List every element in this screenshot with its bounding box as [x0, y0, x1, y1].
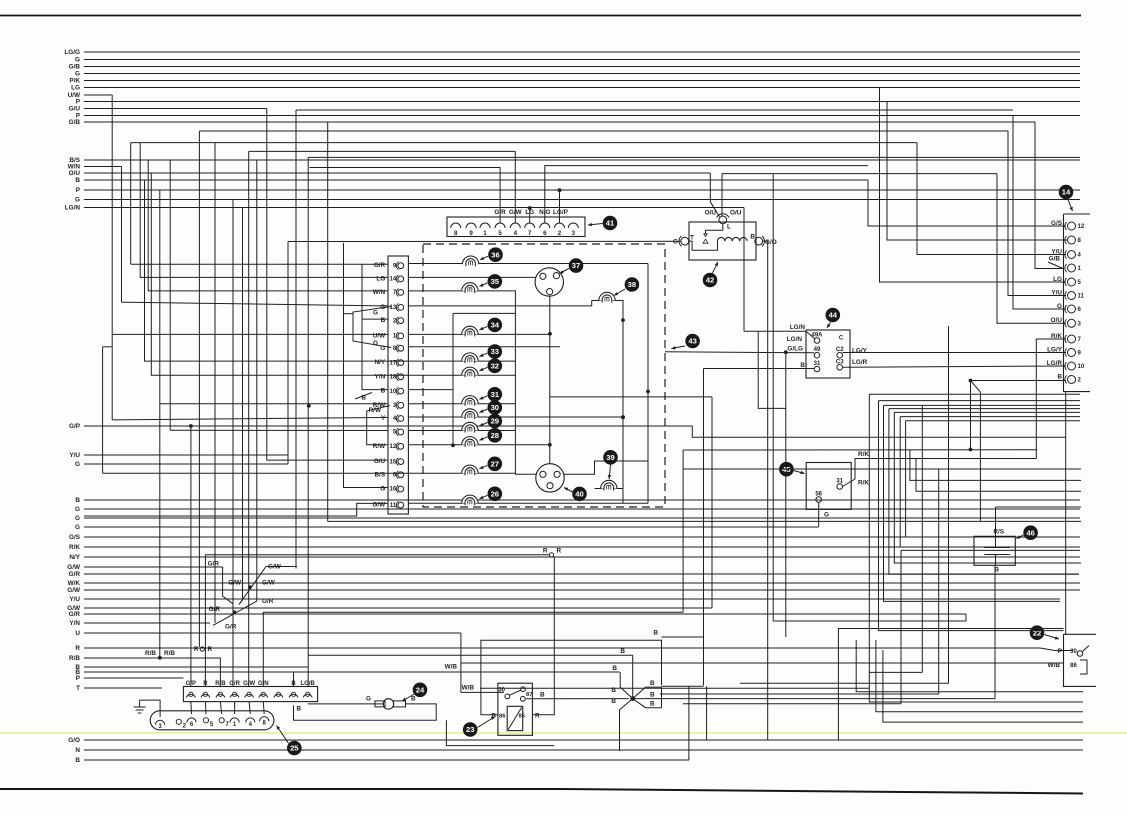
svg-text:LG/N: LG/N — [790, 324, 806, 331]
svg-text:P: P — [76, 675, 81, 682]
svg-text:LG/P: LG/P — [553, 209, 569, 216]
svg-text:32: 32 — [491, 361, 499, 370]
wire y142 cross — [131, 142, 917, 144]
svg-text:B: B — [650, 701, 655, 708]
wire st3 row — [884, 404, 1081, 406]
node gauge vert dot — [621, 318, 625, 322]
warning lamp 28 — [462, 428, 502, 447]
wire G16 bracket top — [344, 313, 354, 315]
wire row4 bulb30 — [408, 416, 623, 418]
wire B 760 — [75, 757, 689, 764]
wire N/Y 557 — [69, 554, 1080, 561]
svg-text:R/W: R/W — [369, 407, 382, 414]
svg-text:Y/N: Y/N — [375, 373, 386, 380]
svg-text:T: T — [76, 685, 80, 692]
svg-text:42: 42 — [706, 276, 714, 285]
wire star ur ext — [662, 685, 704, 687]
svg-text:R/B: R/B — [69, 655, 80, 662]
wire G/B 122 — [69, 119, 1035, 126]
svg-text:G: G — [366, 696, 371, 703]
svg-text:B: B — [800, 362, 805, 369]
switch 22 row 86 — [1048, 660, 1087, 674]
node inner right dot — [646, 390, 650, 394]
wire st5 row — [894, 411, 1080, 413]
svg-text:LG/B: LG/B — [301, 681, 316, 687]
warning lamp 33 — [462, 344, 502, 363]
flasher 44 box — [806, 330, 850, 378]
relay 42 left terminal — [679, 236, 689, 246]
wire G8/B-S bracket — [102, 347, 104, 474]
wire P 190 — [76, 187, 1080, 194]
wire fuse loop — [294, 704, 437, 720]
svg-text:33: 33 — [491, 347, 499, 356]
wire T riser — [869, 394, 1083, 702]
wire GO down — [763, 241, 768, 740]
svg-text:B: B — [612, 665, 617, 672]
wire GN net right — [683, 450, 1037, 613]
node GLG dot — [784, 350, 788, 354]
svg-text:O/U: O/U — [1051, 317, 1063, 324]
wire st2 — [879, 401, 1064, 631]
wire G/B 66 — [69, 64, 1080, 71]
svg-text:G/B: G/B — [1049, 256, 1061, 263]
gauge 37 — [535, 258, 583, 296]
wire R horiz — [205, 554, 549, 556]
svg-text:43: 43 — [688, 337, 696, 346]
wire GO riser — [838, 629, 1063, 741]
wire x948 vert — [948, 326, 950, 683]
wire y621 row — [773, 620, 966, 622]
svg-text:LG/R: LG/R — [852, 359, 868, 366]
svg-text:11: 11 — [1078, 294, 1085, 300]
wire G/B to 14 — [1035, 122, 1063, 269]
svg-text:86: 86 — [499, 714, 506, 720]
labels 42 GT — [673, 235, 694, 246]
svg-text:G/R: G/R — [229, 681, 240, 687]
wire 86 loop — [481, 640, 662, 715]
svg-text:B/S: B/S — [375, 471, 386, 478]
wire x938 vert — [938, 469, 940, 694]
wire OU right drop — [721, 174, 723, 216]
wire st6 row — [900, 416, 1080, 418]
wire LGN left vert — [758, 331, 786, 408]
svg-text:24: 24 — [416, 685, 425, 694]
svg-text:G/U: G/U — [374, 458, 386, 465]
svg-text:28: 28 — [491, 431, 499, 440]
wire st5 — [894, 412, 1081, 563]
svg-text:56: 56 — [815, 492, 822, 498]
wire pin9 G/R — [131, 263, 388, 265]
wire row3 bulb31 — [408, 403, 515, 405]
wire G/W 590 — [67, 587, 1080, 594]
wire bottom inner — [408, 502, 648, 504]
svg-text:G/W: G/W — [372, 502, 386, 509]
wire GR pin vert — [232, 200, 234, 687]
wire G bracket 13-8 — [353, 307, 391, 348]
wire G 527 — [75, 524, 819, 531]
svg-text:B: B — [381, 388, 386, 395]
svg-text:P: P — [76, 99, 81, 106]
wire RB pin up — [219, 658, 221, 687]
svg-text:P: P — [1058, 648, 1063, 655]
svg-text:40: 40 — [575, 490, 583, 499]
svg-text:LG/Y: LG/Y — [852, 348, 868, 355]
svg-text:U/W: U/W — [373, 332, 386, 339]
labels 41 wires — [494, 209, 568, 216]
node row4 dot — [621, 415, 625, 419]
wire B 500 — [75, 497, 1080, 504]
wire 87 B out — [526, 692, 629, 699]
label 43 — [672, 334, 700, 350]
svg-text:W/N: W/N — [373, 289, 386, 296]
svg-text:U: U — [75, 630, 80, 637]
ground star — [620, 655, 662, 751]
svg-text:R/B: R/B — [145, 650, 156, 657]
svg-text:O/U: O/U — [730, 210, 742, 217]
svg-text:G: G — [75, 197, 80, 204]
wire 41 pin7 stub — [528, 206, 532, 223]
wire G/O 740 — [68, 737, 1083, 744]
svg-text:G/S: G/S — [69, 534, 81, 541]
wire R bullet left — [194, 646, 213, 653]
relay 23 coil box — [507, 706, 523, 730]
wire y672 row — [869, 671, 922, 673]
wire diagB exit — [266, 566, 297, 568]
wire pin17 NY feed — [145, 180, 409, 361]
svg-text:16: 16 — [390, 487, 397, 493]
wire B/S 160 — [69, 157, 1080, 164]
wire row14 gauge37 — [408, 276, 537, 278]
wire 41 pin5 feed — [310, 168, 501, 224]
wire row5 — [170, 429, 388, 431]
wire LG/G 52 — [64, 49, 1080, 56]
wire row17 bulb33 — [408, 360, 515, 362]
switch 22 row 30 — [1058, 646, 1089, 657]
ground symbol — [134, 700, 146, 713]
svg-text:G/R: G/R — [209, 606, 221, 613]
wire y694 row — [660, 693, 939, 695]
wire G/W 567 — [67, 564, 222, 571]
svg-text:G/U: G/U — [69, 106, 81, 113]
svg-text:N/Y: N/Y — [375, 359, 386, 366]
instrument dashed box 43 — [423, 244, 665, 507]
wire B10 diag — [355, 393, 372, 402]
wire LGN feed — [743, 208, 745, 332]
label 24 — [402, 683, 427, 702]
svg-text:R/K: R/K — [858, 451, 869, 458]
node row12 dot — [451, 443, 455, 447]
svg-text:G/P: G/P — [69, 423, 81, 430]
wire x922 vert — [921, 405, 923, 672]
svg-text:LG/N: LG/N — [787, 336, 803, 343]
capacitor 46 box — [974, 536, 1015, 565]
wire GW vert — [295, 110, 297, 569]
svg-text:Y: Y — [381, 415, 386, 422]
wire G/S 537 — [69, 534, 1080, 541]
svg-text:C: C — [839, 336, 844, 342]
warning lamp 30 — [462, 400, 502, 419]
svg-text:B: B — [411, 696, 416, 703]
connector 25 terminals — [186, 681, 316, 698]
wire LGR to 14 — [843, 366, 1067, 367]
wire RW3 feed — [159, 190, 161, 658]
wire G/W 608 — [67, 605, 712, 612]
wire YU cross vert — [239, 208, 243, 605]
wire B10/5 bracket — [169, 160, 171, 430]
wire N 750 — [75, 747, 1083, 754]
svg-text:31: 31 — [836, 479, 843, 485]
svg-text:31: 31 — [491, 390, 500, 399]
svg-text:34: 34 — [491, 321, 500, 330]
connector 41 box — [447, 217, 585, 237]
wire st4 row — [889, 408, 1080, 410]
svg-text:R/B: R/B — [164, 650, 175, 657]
warning lamp 31 — [462, 387, 502, 406]
wire row12 bulb28 — [408, 444, 550, 446]
wire y110 to 14 — [1013, 116, 1066, 310]
wire W/N down — [121, 167, 123, 303]
wire U 633 — [75, 630, 461, 637]
wire y151 row — [249, 150, 516, 152]
svg-text:14: 14 — [390, 277, 397, 283]
svg-text:35: 35 — [491, 277, 500, 286]
wire ground link — [140, 700, 161, 717]
wire GN pin up — [263, 612, 683, 686]
svg-text:87: 87 — [526, 692, 532, 698]
svg-text:O/U: O/U — [705, 210, 717, 217]
wire stair d1 — [856, 640, 1083, 692]
fuse 24 — [366, 696, 416, 710]
svg-text:G/R: G/R — [208, 561, 220, 568]
svg-text:B: B — [75, 757, 80, 764]
wire G16 bracket — [344, 243, 389, 488]
wire st2 row — [879, 400, 1081, 402]
svg-text:G/O: G/O — [68, 737, 80, 744]
svg-text:G/W: G/W — [67, 587, 81, 594]
wire RK down — [900, 550, 902, 703]
wire Y/N 623 — [69, 620, 210, 627]
wire pin7 WN feed — [148, 160, 388, 291]
svg-text:O/U: O/U — [69, 170, 81, 177]
svg-text:18: 18 — [390, 375, 397, 381]
labels 44 right — [852, 348, 868, 367]
wire st7 row — [906, 420, 1080, 422]
wire row1 — [408, 333, 550, 335]
wire P 678 — [76, 675, 184, 682]
wire GP pin up — [189, 424, 193, 686]
svg-text:36: 36 — [491, 250, 499, 259]
wire P/K 80 — [69, 78, 1080, 85]
wire G 509 — [75, 506, 1080, 513]
svg-text:B: B — [75, 497, 80, 504]
wire st7 — [905, 421, 907, 537]
svg-text:30: 30 — [491, 403, 499, 412]
node GR diag dot — [232, 610, 236, 614]
svg-text:31: 31 — [814, 361, 821, 367]
wire RS up — [996, 507, 1082, 536]
wire RW bracket 3-12 — [367, 406, 390, 445]
wire B760 riser — [688, 686, 690, 760]
wire LGY to 14 — [843, 352, 1067, 354]
wire x692 y396 vert — [711, 397, 713, 608]
wire GU down — [267, 109, 388, 461]
wire inner right vert — [647, 264, 649, 504]
connector 41 pins — [451, 223, 579, 237]
wire GO up right — [965, 614, 967, 621]
label 25 — [277, 726, 302, 756]
svg-text:G/LG: G/LG — [787, 346, 803, 353]
svg-text:P: P — [76, 187, 81, 194]
label 44 — [826, 308, 841, 328]
wire inner top — [453, 312, 515, 314]
svg-text:30: 30 — [1070, 649, 1077, 655]
svg-text:G/W: G/W — [268, 564, 282, 571]
wire R/B 658 — [69, 655, 220, 662]
svg-text:39: 39 — [606, 453, 614, 462]
wire OU left drop — [710, 173, 719, 217]
warning lamp 34 — [462, 318, 502, 337]
svg-text:T: T — [690, 235, 694, 242]
relay 42 fixed contact — [703, 239, 708, 243]
wires 25 strip to plug — [191, 702, 264, 714]
svg-text:85: 85 — [519, 714, 526, 720]
svg-text:R: R — [557, 548, 562, 555]
labels 42 B GO — [750, 234, 776, 246]
wire GR cross vert — [223, 567, 233, 604]
wire LG 87 — [71, 85, 1080, 92]
wire G/B diag — [1048, 256, 1063, 269]
relay 42 top terminal — [717, 214, 729, 224]
svg-text:W/B: W/B — [462, 685, 475, 692]
wire x785 vert — [785, 352, 787, 637]
svg-text:R/W: R/W — [373, 443, 386, 450]
hazard 45 pins — [815, 479, 843, 503]
connector strip pins — [372, 262, 403, 509]
wire row10 — [408, 389, 453, 391]
wire B to 31 — [704, 368, 815, 370]
svg-text:10: 10 — [390, 389, 397, 395]
wire 85 R out — [532, 557, 554, 715]
wire G 199 — [75, 197, 1080, 204]
node RW3 dot — [307, 404, 311, 408]
wire bulb38 base — [592, 301, 623, 504]
label 42 — [703, 262, 718, 287]
svg-text:B: B — [620, 648, 625, 655]
relay 42 coil — [718, 237, 748, 241]
svg-text:G/O: G/O — [765, 239, 777, 246]
wire R/K 547 — [69, 544, 1080, 551]
wire LGN route — [744, 330, 806, 332]
wire P 115 — [76, 113, 1080, 120]
warning lamp 29 — [462, 414, 502, 433]
wire G/R 614 — [69, 611, 966, 618]
svg-text:9: 9 — [469, 230, 473, 237]
svg-text:G/W: G/W — [243, 681, 255, 687]
wire row7 bulb35 — [408, 291, 536, 474]
wire fuse area jog — [446, 720, 554, 745]
svg-text:49: 49 — [814, 347, 821, 353]
wire B 180 — [75, 177, 868, 184]
wire 41 pin4 feed — [514, 151, 516, 223]
wire y110 seg — [296, 109, 1013, 111]
wire inner vert — [452, 313, 454, 445]
wire y703 row — [683, 703, 901, 705]
label 45 — [779, 462, 804, 477]
svg-text:B: B — [611, 698, 616, 705]
label 23 — [463, 717, 495, 737]
wire LG to 14 — [880, 88, 1067, 283]
wire 41 pin6 feed — [545, 166, 868, 223]
switch 22 box — [1064, 634, 1097, 686]
wire box link — [1065, 392, 1067, 635]
svg-text:R/K: R/K — [858, 480, 869, 487]
svg-text:15: 15 — [390, 459, 397, 465]
wire R pin up — [204, 555, 206, 687]
wire T row top — [869, 393, 1080, 395]
svg-text:R: R — [75, 645, 80, 652]
wire LG/N 207 — [65, 205, 744, 212]
labels crossover — [208, 561, 282, 631]
svg-text:LG/N: LG/N — [65, 205, 81, 212]
node row1 dot — [548, 332, 552, 336]
svg-text:N/Y: N/Y — [69, 554, 80, 561]
relay 42 right terminal — [755, 236, 765, 246]
connector strip box — [388, 256, 408, 514]
svg-text:G/W: G/W — [228, 580, 242, 587]
label 14 — [1059, 185, 1074, 211]
svg-text:6: 6 — [543, 230, 547, 237]
wire star top — [308, 654, 633, 656]
wire 56 G — [819, 503, 829, 527]
warning lamp 27 — [462, 457, 502, 476]
svg-text:B: B — [750, 234, 755, 241]
svg-text:G: G — [75, 57, 80, 64]
svg-text:W/K: W/K — [68, 580, 81, 587]
labels star B — [611, 648, 655, 708]
wire row13 bulb38 — [408, 301, 592, 306]
svg-text:8: 8 — [454, 230, 458, 237]
wire RK diag — [843, 451, 1037, 487]
svg-text:G: G — [75, 524, 80, 531]
wire row6 bulb27 — [103, 472, 516, 474]
wire B net up — [969, 379, 1066, 452]
svg-text:B: B — [1057, 373, 1062, 380]
wire st4 — [889, 409, 1079, 575]
wire x980 vert — [971, 381, 981, 522]
labels 44 left — [787, 324, 806, 369]
wire st3 — [884, 405, 1061, 601]
svg-text:G/W: G/W — [67, 564, 81, 571]
wire G 464 — [75, 461, 288, 468]
wire T net — [480, 687, 869, 689]
connector 25 box — [183, 687, 317, 702]
wire G 73 — [75, 71, 1080, 78]
node diagB dot — [248, 585, 252, 589]
wire G 59 — [75, 57, 1080, 64]
svg-text:B: B — [75, 177, 80, 184]
wire B pin up — [293, 672, 295, 687]
wire diagA up — [256, 160, 258, 601]
svg-text:1: 1 — [483, 230, 487, 237]
wire flasher B join — [653, 630, 703, 638]
svg-text:G: G — [75, 71, 80, 78]
svg-text:25: 25 — [290, 744, 299, 753]
svg-text:G/R: G/R — [262, 598, 274, 605]
wire B 672 — [75, 669, 619, 676]
svg-text:G: G — [673, 239, 678, 246]
wire GLG stub — [665, 352, 814, 353]
wire y131 row — [199, 130, 1008, 132]
